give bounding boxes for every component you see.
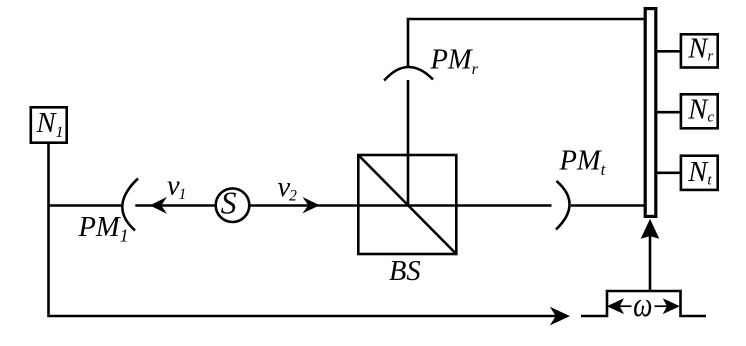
wire S to BS [249, 204, 552, 207]
photodetector PM1 arc [122, 179, 138, 231]
arrowhead up to bar [641, 219, 660, 239]
svg-text:S: S [221, 186, 237, 221]
beam splitter BS diagonal [358, 155, 456, 254]
arrowhead bottom delay (right) [550, 307, 570, 326]
beam splitter BS square [358, 155, 456, 254]
wire gate pulse to up arrow [649, 234, 652, 291]
wire PMr to top to bar [408, 19, 645, 68]
arrowhead nu1 (left) [150, 197, 167, 214]
wire bottom delay line [47, 315, 556, 318]
svg-text:BS: BS [389, 256, 421, 287]
arrowhead width right [663, 298, 680, 314]
gate pulse waveform [581, 291, 706, 316]
photodetector PMt arc [556, 181, 570, 230]
beam inside BS vertical [407, 155, 410, 206]
svg-text:PMt: PMt [559, 146, 607, 180]
wire N1 down to bottom corner [47, 144, 50, 315]
width arrow left shaft [619, 305, 632, 307]
photodetector PMr arc [384, 67, 433, 81]
arrowhead width left [607, 298, 624, 314]
counter box Nr [681, 34, 718, 67]
counter box N1 [31, 107, 67, 142]
width arrow right shaft [655, 305, 669, 307]
counter box Nt [681, 156, 718, 190]
svg-text:PMr: PMr [430, 45, 479, 79]
beam arrow nu1 shaft [135, 204, 216, 207]
coincidence gate bar [645, 9, 656, 217]
arrowhead nu2 (right) [303, 197, 320, 213]
wire bar to Nt [657, 172, 682, 175]
wire bar to Nc [657, 111, 682, 114]
wire PMt to coincidence bar [571, 204, 645, 207]
wire axis left segment [49, 204, 124, 207]
source S circle [216, 188, 250, 222]
svg-text:ω: ω [633, 285, 652, 324]
counter box Nc [681, 94, 718, 128]
wire bar to Nr [657, 50, 682, 53]
beam BS up to PMr [407, 80, 410, 155]
